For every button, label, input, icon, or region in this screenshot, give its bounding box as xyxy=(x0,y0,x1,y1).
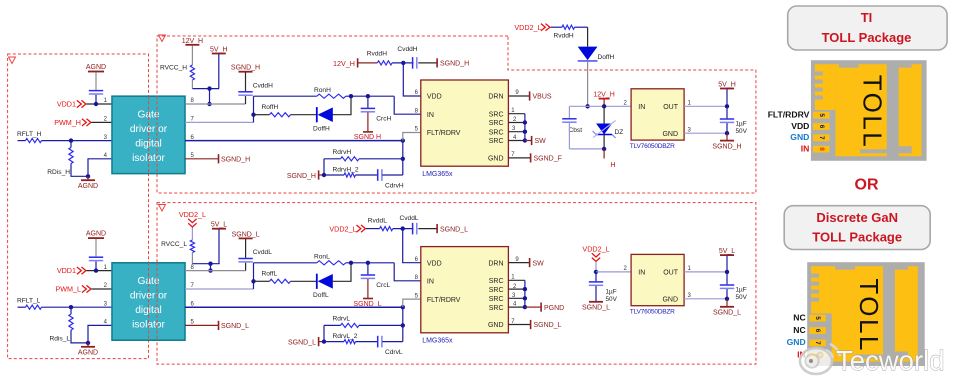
wire VDD1 to pin 1 xyxy=(87,103,113,105)
svg-text:SGND_H: SGND_H xyxy=(287,173,316,180)
wire FLT to Rdrv network (L) xyxy=(402,307,404,341)
wire pin 8 net (L) xyxy=(185,270,246,272)
svg-text:SRC: SRC xyxy=(489,278,504,285)
svg-text:AGND: AGND xyxy=(78,350,98,357)
svg-text:RDis_H: RDis_H xyxy=(47,169,70,176)
wire gate network left vertical (L) xyxy=(253,263,255,289)
svg-text:12V_H: 12V_H xyxy=(182,38,203,45)
svg-text:SGND_L: SGND_L xyxy=(232,231,260,238)
callout box Discrete GaN TOLL Package xyxy=(784,206,930,250)
svg-text:IN: IN xyxy=(801,143,810,153)
svg-text:GND: GND xyxy=(790,132,809,142)
svg-text:RvddL: RvddL xyxy=(368,218,387,225)
svg-text:SGND_F: SGND_F xyxy=(534,156,562,163)
wire VDD2_L to IN node xyxy=(595,262,597,272)
svg-text:5: 5 xyxy=(818,113,825,117)
svg-text:50V: 50V xyxy=(736,294,748,301)
node pin8 junction xyxy=(207,102,211,106)
svg-text:SGND_H: SGND_H xyxy=(712,143,741,150)
svg-text:6: 6 xyxy=(814,329,821,333)
node RdrvL_2 junction xyxy=(322,339,326,343)
node bootstrap junction xyxy=(585,104,589,108)
node bootstrap bottom junction xyxy=(602,147,606,151)
svg-text:5V_L: 5V_L xyxy=(719,248,735,255)
svg-text:Rdis_L: Rdis_L xyxy=(49,336,70,343)
power symbol 12V_H (bootstrap rail) xyxy=(599,98,610,100)
svg-text:SRC: SRC xyxy=(489,129,504,136)
node pin8 junction (L) xyxy=(208,268,212,272)
svg-text:LMG365x: LMG365x xyxy=(422,338,453,345)
power symbol 5V_L (LDO out) xyxy=(720,254,734,256)
wire bootstrap node xyxy=(569,105,631,107)
node DoffH/RonH junction xyxy=(349,94,353,98)
svg-text:RoffH: RoffH xyxy=(262,104,279,111)
svg-text:SGND_L: SGND_L xyxy=(221,323,249,330)
svg-text:NC: NC xyxy=(793,312,805,322)
node RoffH tap xyxy=(251,113,255,117)
svg-text:7: 7 xyxy=(818,136,825,140)
svg-text:5V_H: 5V_H xyxy=(210,47,228,54)
wire RDis_H to pin 4 xyxy=(71,164,88,177)
high-side dashed boundary box xyxy=(157,36,756,193)
node OUT junction xyxy=(725,104,729,108)
svg-text:SRC: SRC xyxy=(489,305,504,312)
LDO regulator TLV76050DBZR (low side) xyxy=(631,254,684,305)
resistor RvddH xyxy=(562,25,575,29)
diode DoffL (gate off) xyxy=(316,274,318,289)
wire RVCC_L node horizontal xyxy=(192,263,219,265)
svg-text:GND: GND xyxy=(787,337,806,347)
svg-text:1µF: 1µF xyxy=(736,121,747,128)
svg-text:SGND_L: SGND_L xyxy=(582,305,610,312)
wire SGND_L to CvddL xyxy=(245,239,247,258)
svg-text:Cbst: Cbst xyxy=(569,127,583,134)
watermark logo xyxy=(800,344,840,374)
svg-text:GND: GND xyxy=(662,131,678,138)
svg-text:TOLL: TOLL xyxy=(854,278,884,353)
capacitor CdrvL xyxy=(377,336,379,348)
svg-text:12V_H: 12V_H xyxy=(593,92,614,99)
wire VDD2_L to RvddL xyxy=(366,228,380,230)
svg-text:CrcL: CrcL xyxy=(376,282,390,289)
wire 12V_H to RVCC_H xyxy=(191,46,193,66)
TOLL package drawing (TI LMG365x) xyxy=(811,60,927,161)
node RdrvL junction xyxy=(401,323,405,327)
power symbol 12V_H (driver supply) xyxy=(185,44,199,46)
svg-text:H: H xyxy=(610,160,615,169)
node pin4/AGND junction xyxy=(86,174,90,178)
svg-text:VDD: VDD xyxy=(427,260,442,267)
svg-text:RVCC_H: RVCC_H xyxy=(160,65,187,72)
GaN power IC LMG365x (low side) xyxy=(421,247,509,333)
svg-text:TLV76050DBZR: TLV76050DBZR xyxy=(630,308,675,315)
svg-text:SW: SW xyxy=(535,138,547,145)
callout box TI TOLL Package xyxy=(788,6,947,50)
wire RvddH to VDD pin xyxy=(403,63,421,96)
svg-text:RFLT_H: RFLT_H xyxy=(17,131,42,138)
svg-text:8: 8 xyxy=(818,147,825,151)
wire PWM_H to pin 2 xyxy=(92,121,113,123)
svg-text:VDD: VDD xyxy=(427,94,442,101)
node LDO IN junction (L) xyxy=(594,270,598,274)
wire RFLT to pin 3 xyxy=(71,306,112,308)
node GND junction (H out) xyxy=(725,131,729,135)
wire RvddL to VDD pin (L) xyxy=(403,229,421,263)
wire RFLT to pin 3 xyxy=(71,140,112,142)
svg-text:50V: 50V xyxy=(606,296,618,303)
node RFLT junction xyxy=(69,305,73,309)
power symbol 5V_L (driver) xyxy=(212,228,226,230)
svg-text:RFLT_L: RFLT_L xyxy=(17,298,41,305)
wire VDD2_L to RvddH xyxy=(551,26,563,28)
svg-text:7: 7 xyxy=(814,341,821,345)
node SRC4 (L) xyxy=(523,305,527,309)
svg-text:TLV76050DBZR: TLV76050DBZR xyxy=(630,143,675,150)
svg-text:VDD2_L: VDD2_L xyxy=(329,224,356,233)
svg-text:CrcH: CrcH xyxy=(376,116,391,123)
svg-text:CvddH: CvddH xyxy=(397,46,417,53)
ground symbol SGND_L (LDO out) xyxy=(726,299,728,307)
wire AGND to bypass cap xyxy=(95,239,97,257)
capacitor 1uF 50V (L out) xyxy=(726,272,728,285)
wire junction to pin 8 (L) xyxy=(210,264,212,271)
node CrcL junction xyxy=(366,261,370,265)
gate driver / digital isolator U (L-side) xyxy=(112,263,185,340)
svg-text:SRC: SRC xyxy=(489,296,504,303)
wire RdrvH left vertical xyxy=(323,159,325,175)
wire 5V_H to OUT xyxy=(726,89,728,106)
svg-text:CvddL: CvddL xyxy=(400,215,419,222)
wire pin 7 to gate network (L) xyxy=(185,288,254,290)
svg-text:OUT: OUT xyxy=(663,104,679,111)
wire pin 8 net xyxy=(185,103,246,105)
terminal SGND_H (CvddH) xyxy=(436,58,438,67)
wire gate network left vertical xyxy=(253,96,255,122)
svg-text:VDD1: VDD1 xyxy=(57,100,76,109)
svg-text:GND: GND xyxy=(488,322,504,329)
svg-text:VDD2_L: VDD2_L xyxy=(179,210,206,219)
power symbol 5V_H (driver) xyxy=(212,53,226,55)
capacitor 1uF 50V (H out) xyxy=(726,106,728,118)
node VDD1/pin1 junction xyxy=(94,102,98,106)
svg-text:12V_H: 12V_H xyxy=(333,59,355,68)
node DoffL/RonL junction xyxy=(349,261,353,265)
terminal SGND_H (driver pin 5) xyxy=(185,158,218,160)
svg-text:SGND_H: SGND_H xyxy=(231,65,260,72)
svg-text:FLT/RDRV: FLT/RDRV xyxy=(768,110,810,120)
capacitor VDD1 bypass xyxy=(89,256,103,258)
svg-text:CvddL: CvddL xyxy=(253,249,272,256)
svg-text:TOLL Package: TOLL Package xyxy=(822,30,912,45)
node FLT junction (L) xyxy=(401,305,405,309)
capacitor CvddH (series) xyxy=(412,57,414,69)
svg-text:IN: IN xyxy=(638,104,645,111)
ground symbol SGND_L (CrcL) xyxy=(367,279,369,298)
wire 5V_L to OUT xyxy=(726,256,728,272)
svg-text:VDD2_L: VDD2_L xyxy=(514,23,541,32)
low-side dashed boundary box xyxy=(157,203,756,365)
svg-text:FLT/RDRV: FLT/RDRV xyxy=(427,297,461,304)
svg-text:GND: GND xyxy=(662,296,678,303)
svg-text:VDD2_L: VDD2_L xyxy=(582,244,609,253)
wire PWM_L to pin 2 xyxy=(92,288,113,290)
svg-text:NC: NC xyxy=(793,325,805,335)
svg-text:RvddH: RvddH xyxy=(554,32,574,39)
svg-text:DoffL: DoffL xyxy=(313,292,329,299)
ground symbol SGND_H (CrcH) xyxy=(367,112,369,131)
node GND junction (L out) xyxy=(725,297,729,301)
power symbol 5V_H (LDO out) xyxy=(720,88,734,90)
svg-text:RoffL: RoffL xyxy=(262,270,278,277)
svg-text:PWM_L: PWM_L xyxy=(55,285,81,294)
svg-text:RdrvH_2: RdrvH_2 xyxy=(333,167,359,174)
capacitor CvddL (driver bypass) xyxy=(238,258,252,260)
svg-text:RonL: RonL xyxy=(314,254,330,261)
terminal SW (high side) xyxy=(525,140,531,142)
svg-text:CdrvH: CdrvH xyxy=(385,182,404,189)
svg-text:Tecworld: Tecworld xyxy=(836,345,945,376)
diode DoffH (gate off) xyxy=(316,107,318,122)
wire junction to pin 8 xyxy=(209,89,211,104)
wire cap to VDD1 node xyxy=(95,261,97,270)
isolation dashed line over driver (H) xyxy=(148,96,150,173)
svg-text:SW: SW xyxy=(533,260,545,267)
svg-text:FLT/RDRV: FLT/RDRV xyxy=(427,130,461,137)
GaN power IC LMG365x (high side) xyxy=(421,80,509,166)
wire SGND_H to CvddH xyxy=(245,72,247,91)
svg-text:VDD: VDD xyxy=(791,121,809,131)
wire CvddH to pin8 net xyxy=(245,96,247,104)
svg-text:TOLL: TOLL xyxy=(858,75,888,150)
node VDD1/pin1 junction xyxy=(94,268,98,272)
svg-text:Discrete GaN: Discrete GaN xyxy=(816,210,898,225)
svg-text:6: 6 xyxy=(818,125,825,129)
terminal SGND_L (LMG) xyxy=(530,320,532,329)
TOLL package drawing (discrete GaN) xyxy=(807,262,925,366)
node RvddH junction xyxy=(401,61,405,65)
node SRC3 xyxy=(523,130,527,134)
svg-text:GND: GND xyxy=(488,156,504,163)
capacitor CvddL (series) xyxy=(412,223,414,235)
svg-text:RonH: RonH xyxy=(314,87,331,94)
svg-text:AGND: AGND xyxy=(78,183,98,190)
node RFLT junction xyxy=(69,138,73,142)
wire DoffL to RonL line xyxy=(333,263,351,282)
terminal SGND_L (driver pin 5) xyxy=(185,324,218,326)
zone marker A (high-side box) xyxy=(159,35,166,42)
resistor RvddL xyxy=(380,227,393,231)
svg-text:VDD1: VDD1 xyxy=(57,266,76,275)
zener diode DZ xyxy=(603,106,605,123)
wire CdrvL to FLT node (L) xyxy=(382,341,403,343)
svg-text:5V_H: 5V_H xyxy=(718,82,736,89)
node CrcH junction xyxy=(366,94,370,98)
svg-text:IN: IN xyxy=(427,279,434,286)
node pin4/AGND junction xyxy=(86,341,90,345)
svg-text:SGND_L: SGND_L xyxy=(440,226,468,233)
node SRC2 xyxy=(523,120,527,124)
svg-text:SRC: SRC xyxy=(489,138,504,145)
capacitor CdrvH xyxy=(377,169,379,181)
svg-text:DZ: DZ xyxy=(615,129,624,136)
wire GND stub xyxy=(508,157,530,159)
svg-text:SGND_L: SGND_L xyxy=(288,339,316,346)
node SRC3 (L) xyxy=(523,296,527,300)
svg-text:CdrvL: CdrvL xyxy=(385,349,403,356)
svg-text:50V: 50V xyxy=(736,128,748,135)
wire RonL to LMG IN (L) xyxy=(394,263,421,281)
capacitor 1uF 50V (L in) xyxy=(595,272,597,281)
svg-text:AGND: AGND xyxy=(86,231,106,238)
wire DoffH to RonH line xyxy=(333,96,351,115)
capacitor CrcL xyxy=(367,263,369,275)
wire CdrvH to FLT node xyxy=(382,174,403,176)
svg-text:AGND: AGND xyxy=(86,64,106,71)
zone marker A (low-side box) xyxy=(159,205,166,212)
svg-text:SGND_L: SGND_L xyxy=(534,322,562,329)
node SRC2 (L) xyxy=(523,287,527,291)
node RVCC_L junction xyxy=(208,262,212,266)
svg-text:RVCC_L: RVCC_L xyxy=(161,241,187,248)
svg-text:DoffH: DoffH xyxy=(598,54,615,61)
svg-text:DRN: DRN xyxy=(488,94,503,101)
gate driver / digital isolator U (H-side) xyxy=(112,96,185,173)
svg-text:SRC: SRC xyxy=(489,287,504,294)
svg-text:DoffH: DoffH xyxy=(313,126,330,133)
terminal SGND_F xyxy=(530,153,532,162)
wire RVCC node horizontal xyxy=(192,88,219,90)
resistor Rdis_L xyxy=(70,307,72,314)
terminal SW (low side) xyxy=(529,258,531,267)
zone marker A (left box) xyxy=(9,57,16,64)
svg-text:DRN: DRN xyxy=(488,260,503,267)
wire VDD2_L to RVCC_L xyxy=(191,228,193,241)
wire SRC pins (L) xyxy=(508,279,525,281)
net stub H xyxy=(603,149,605,159)
capacitor CvddH (driver bypass) xyxy=(238,91,252,93)
svg-text:VBUS: VBUS xyxy=(533,94,552,101)
svg-text:CvddH: CvddH xyxy=(253,82,273,89)
svg-text:OUT: OUT xyxy=(663,270,679,277)
wire Rdis_L to pin 4 xyxy=(71,330,88,343)
wire RdrvL left vertical xyxy=(323,325,325,341)
node RdrvH junction xyxy=(401,157,405,161)
capacitor VDD1 bypass xyxy=(89,90,103,92)
svg-text:OR: OR xyxy=(855,177,879,194)
svg-text:1µF: 1µF xyxy=(736,287,747,294)
node 12V_H junction xyxy=(602,104,606,108)
svg-text:PGND: PGND xyxy=(544,305,564,312)
terminal SGND_L (CvddL) xyxy=(436,224,438,233)
wire VDD1 to pin 1 xyxy=(87,270,113,272)
svg-text:IN: IN xyxy=(638,270,645,277)
wire DoffH to 12V_H node xyxy=(587,62,589,107)
wire bootstrap bottom xyxy=(569,148,604,150)
svg-text:RvddH: RvddH xyxy=(367,50,387,57)
svg-text:LMG365x: LMG365x xyxy=(422,171,453,178)
resistor RDis_H xyxy=(70,141,72,148)
wire RVCC_L down xyxy=(191,253,193,264)
wire CvddL to SGND_L xyxy=(418,228,436,230)
wire RvddH to DoffH diode xyxy=(587,27,589,46)
svg-text:5: 5 xyxy=(814,316,821,320)
node OUT junction (L) xyxy=(725,270,729,274)
ground symbol AGND (lower, H-side) xyxy=(87,176,89,179)
wire RVCC_H down xyxy=(191,80,193,89)
wire CvddL to pin8 net (L) xyxy=(245,263,247,271)
isolation boundary (left dashed box) xyxy=(8,54,149,359)
wire jog to FLT pin xyxy=(403,133,421,141)
wire IN node to TLV (L) xyxy=(596,271,631,273)
capacitor CrcH xyxy=(367,96,369,108)
wire RonH to LMG IN xyxy=(394,96,421,114)
svg-text:SGND_L: SGND_L xyxy=(713,310,741,317)
power symbol SGND_L (CvddL) xyxy=(239,237,253,239)
ground symbol SGND_H (LDO) xyxy=(726,133,728,140)
svg-text:SRC: SRC xyxy=(489,111,504,118)
wire DRN stub (L) xyxy=(508,262,529,264)
node RvddL junction xyxy=(401,226,405,230)
ground symbol AGND (lower, L-side) xyxy=(87,343,89,346)
terminal PGND xyxy=(525,306,541,308)
node FLT junction xyxy=(401,138,405,142)
wire FLT to Rdrv network xyxy=(402,141,404,175)
svg-text:IN: IN xyxy=(427,112,434,119)
node RoffL tap xyxy=(251,279,255,283)
wire jog to FLT pin (L) xyxy=(403,299,421,307)
resistor RvddH (VDD filter) xyxy=(377,61,392,65)
svg-text:5V_L: 5V_L xyxy=(211,222,227,229)
node RVCC junction xyxy=(207,86,211,90)
wire pin 6 to FLT/RDRV (L) xyxy=(185,306,403,308)
wire pin 7 to gate network xyxy=(185,121,254,123)
svg-text:RdrvH: RdrvH xyxy=(333,149,352,156)
svg-text:TI: TI xyxy=(861,10,873,25)
wire pin 6 to FLT/RDRV xyxy=(185,140,403,142)
node SRC4 xyxy=(523,138,527,142)
wire AGND to bypass cap xyxy=(95,72,97,90)
wire cap to VDD1 node xyxy=(95,95,97,104)
node RdrvH_2 junction xyxy=(322,173,326,177)
svg-text:TOLL Package: TOLL Package xyxy=(812,230,902,245)
ground symbol SGND_L (LDO in) xyxy=(589,301,603,303)
power symbol SGND_H (CvddH) xyxy=(239,71,253,73)
terminal VBUS xyxy=(529,91,531,100)
wire SRC pins xyxy=(508,113,525,115)
wire CvddH to SGND_H xyxy=(418,62,436,64)
LDO regulator TLV76050DBZR (high side) xyxy=(631,89,684,140)
diode DoffH (bootstrap) xyxy=(578,47,598,61)
svg-text:PWM_H: PWM_H xyxy=(54,118,81,127)
svg-text:RdrvL: RdrvL xyxy=(333,316,351,323)
svg-text:1µF: 1µF xyxy=(606,289,617,296)
wire 5V_L down xyxy=(218,229,220,263)
wire GND stub (L) xyxy=(508,324,530,326)
svg-text:SGND_H: SGND_H xyxy=(440,61,469,68)
capacitor Cbst xyxy=(568,106,570,118)
isolation dashed line over driver (L) xyxy=(148,263,150,340)
wire DRN stub xyxy=(508,95,529,97)
wire 5V_H down xyxy=(218,54,220,88)
svg-text:SRC: SRC xyxy=(489,120,504,127)
svg-text:SGND_H: SGND_H xyxy=(221,157,250,164)
wire 12V_H stub xyxy=(603,99,605,106)
